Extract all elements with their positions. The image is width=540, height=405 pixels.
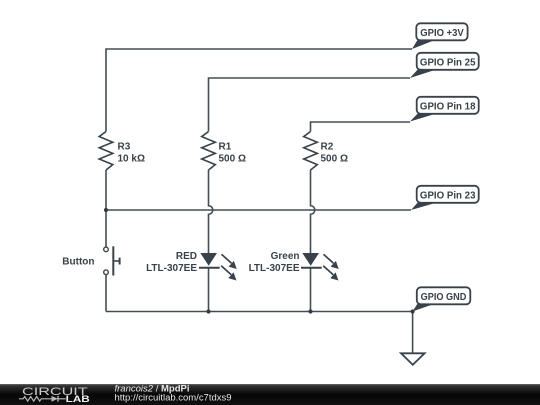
label RED LTL-307EE (146, 251, 197, 274)
svg-text:LTL-307EE: LTL-307EE (249, 263, 300, 274)
net flag GPIO Pin 25 (410, 53, 479, 78)
svg-text:R3: R3 (118, 141, 131, 152)
wire: GPIO Pin 23 net from node A to flag (106, 209, 411, 211)
wire: ground rail (106, 311, 413, 313)
wire: R1 bottom to RED LED anode (hop over Pin 23 wire) (209, 170, 213, 253)
svg-text:LTL-307EE: LTL-307EE (146, 263, 197, 274)
svg-text:500 Ω: 500 Ω (219, 153, 246, 164)
wire: ground rail to ground symbol (412, 312, 414, 354)
LED D1 RED (199, 253, 237, 281)
svg-text:http://circuitlab.com/c7tdxs9: http://circuitlab.com/c7tdxs9 (115, 393, 232, 404)
svg-text:500 Ω: 500 Ω (321, 153, 348, 164)
wire: +3V rail from R3 top to GPIO +3V flag (106, 49, 412, 132)
junction node A (106,210) (104, 208, 108, 212)
svg-text:GPIO GND: GPIO GND (421, 291, 467, 303)
wire: R2 bottom to Green LED anode (hop over Pin 23 wire) (311, 170, 315, 253)
svg-text:GPIO Pin 18: GPIO Pin 18 (420, 100, 476, 112)
wire: R2 top to GPIO Pin 18 flag (311, 122, 411, 132)
wire: R1 top to GPIO Pin 25 flag (209, 78, 411, 132)
junction dot: RED LED cathode on ground rail (206, 309, 210, 313)
wire: R3 bottom to node A (105, 170, 107, 210)
resistor R3 (99, 132, 113, 171)
LED D2 Green (301, 253, 339, 281)
svg-text:R2: R2 (321, 141, 334, 152)
resistor R2 (304, 132, 318, 171)
label R3 10 kohm (118, 141, 145, 164)
svg-text:Green: Green (271, 251, 300, 262)
net flag GPIO Pin 18 (410, 97, 479, 122)
svg-text:GPIO Pin 23: GPIO Pin 23 (420, 189, 476, 201)
svg-text:GPIO Pin 25: GPIO Pin 25 (420, 56, 476, 68)
label R1 500 ohm (219, 141, 246, 164)
label Green LTL-307EE (249, 251, 300, 274)
CircuitLab logo (19, 386, 90, 404)
net flag GPIO +3V (412, 23, 468, 49)
svg-text:R1: R1 (219, 141, 232, 152)
resistor R1 (202, 132, 216, 171)
label R2 500 ohm (321, 141, 348, 164)
wire: button to bottom ground rail (105, 275, 107, 312)
svg-text:GPIO +3V: GPIO +3V (420, 27, 464, 39)
wire: node A down to button (105, 210, 107, 247)
svg-text:10 kΩ: 10 kΩ (118, 153, 145, 164)
wire: Green LED cathode to ground rail (310, 269, 312, 312)
svg-text:RED: RED (176, 251, 197, 262)
wire: RED LED cathode to ground rail (208, 269, 210, 312)
junction dot: Green LED cathode on ground rail (308, 309, 312, 313)
net flag GPIO Pin 23 (411, 186, 479, 210)
ground symbol (401, 353, 425, 365)
svg-text:LAB: LAB (66, 394, 91, 404)
svg-text:Button: Button (62, 257, 94, 268)
pushbutton SW1 (104, 246, 120, 275)
net flag GPIO GND (413, 287, 471, 311)
junction dot: GND column on ground rail (411, 309, 415, 313)
